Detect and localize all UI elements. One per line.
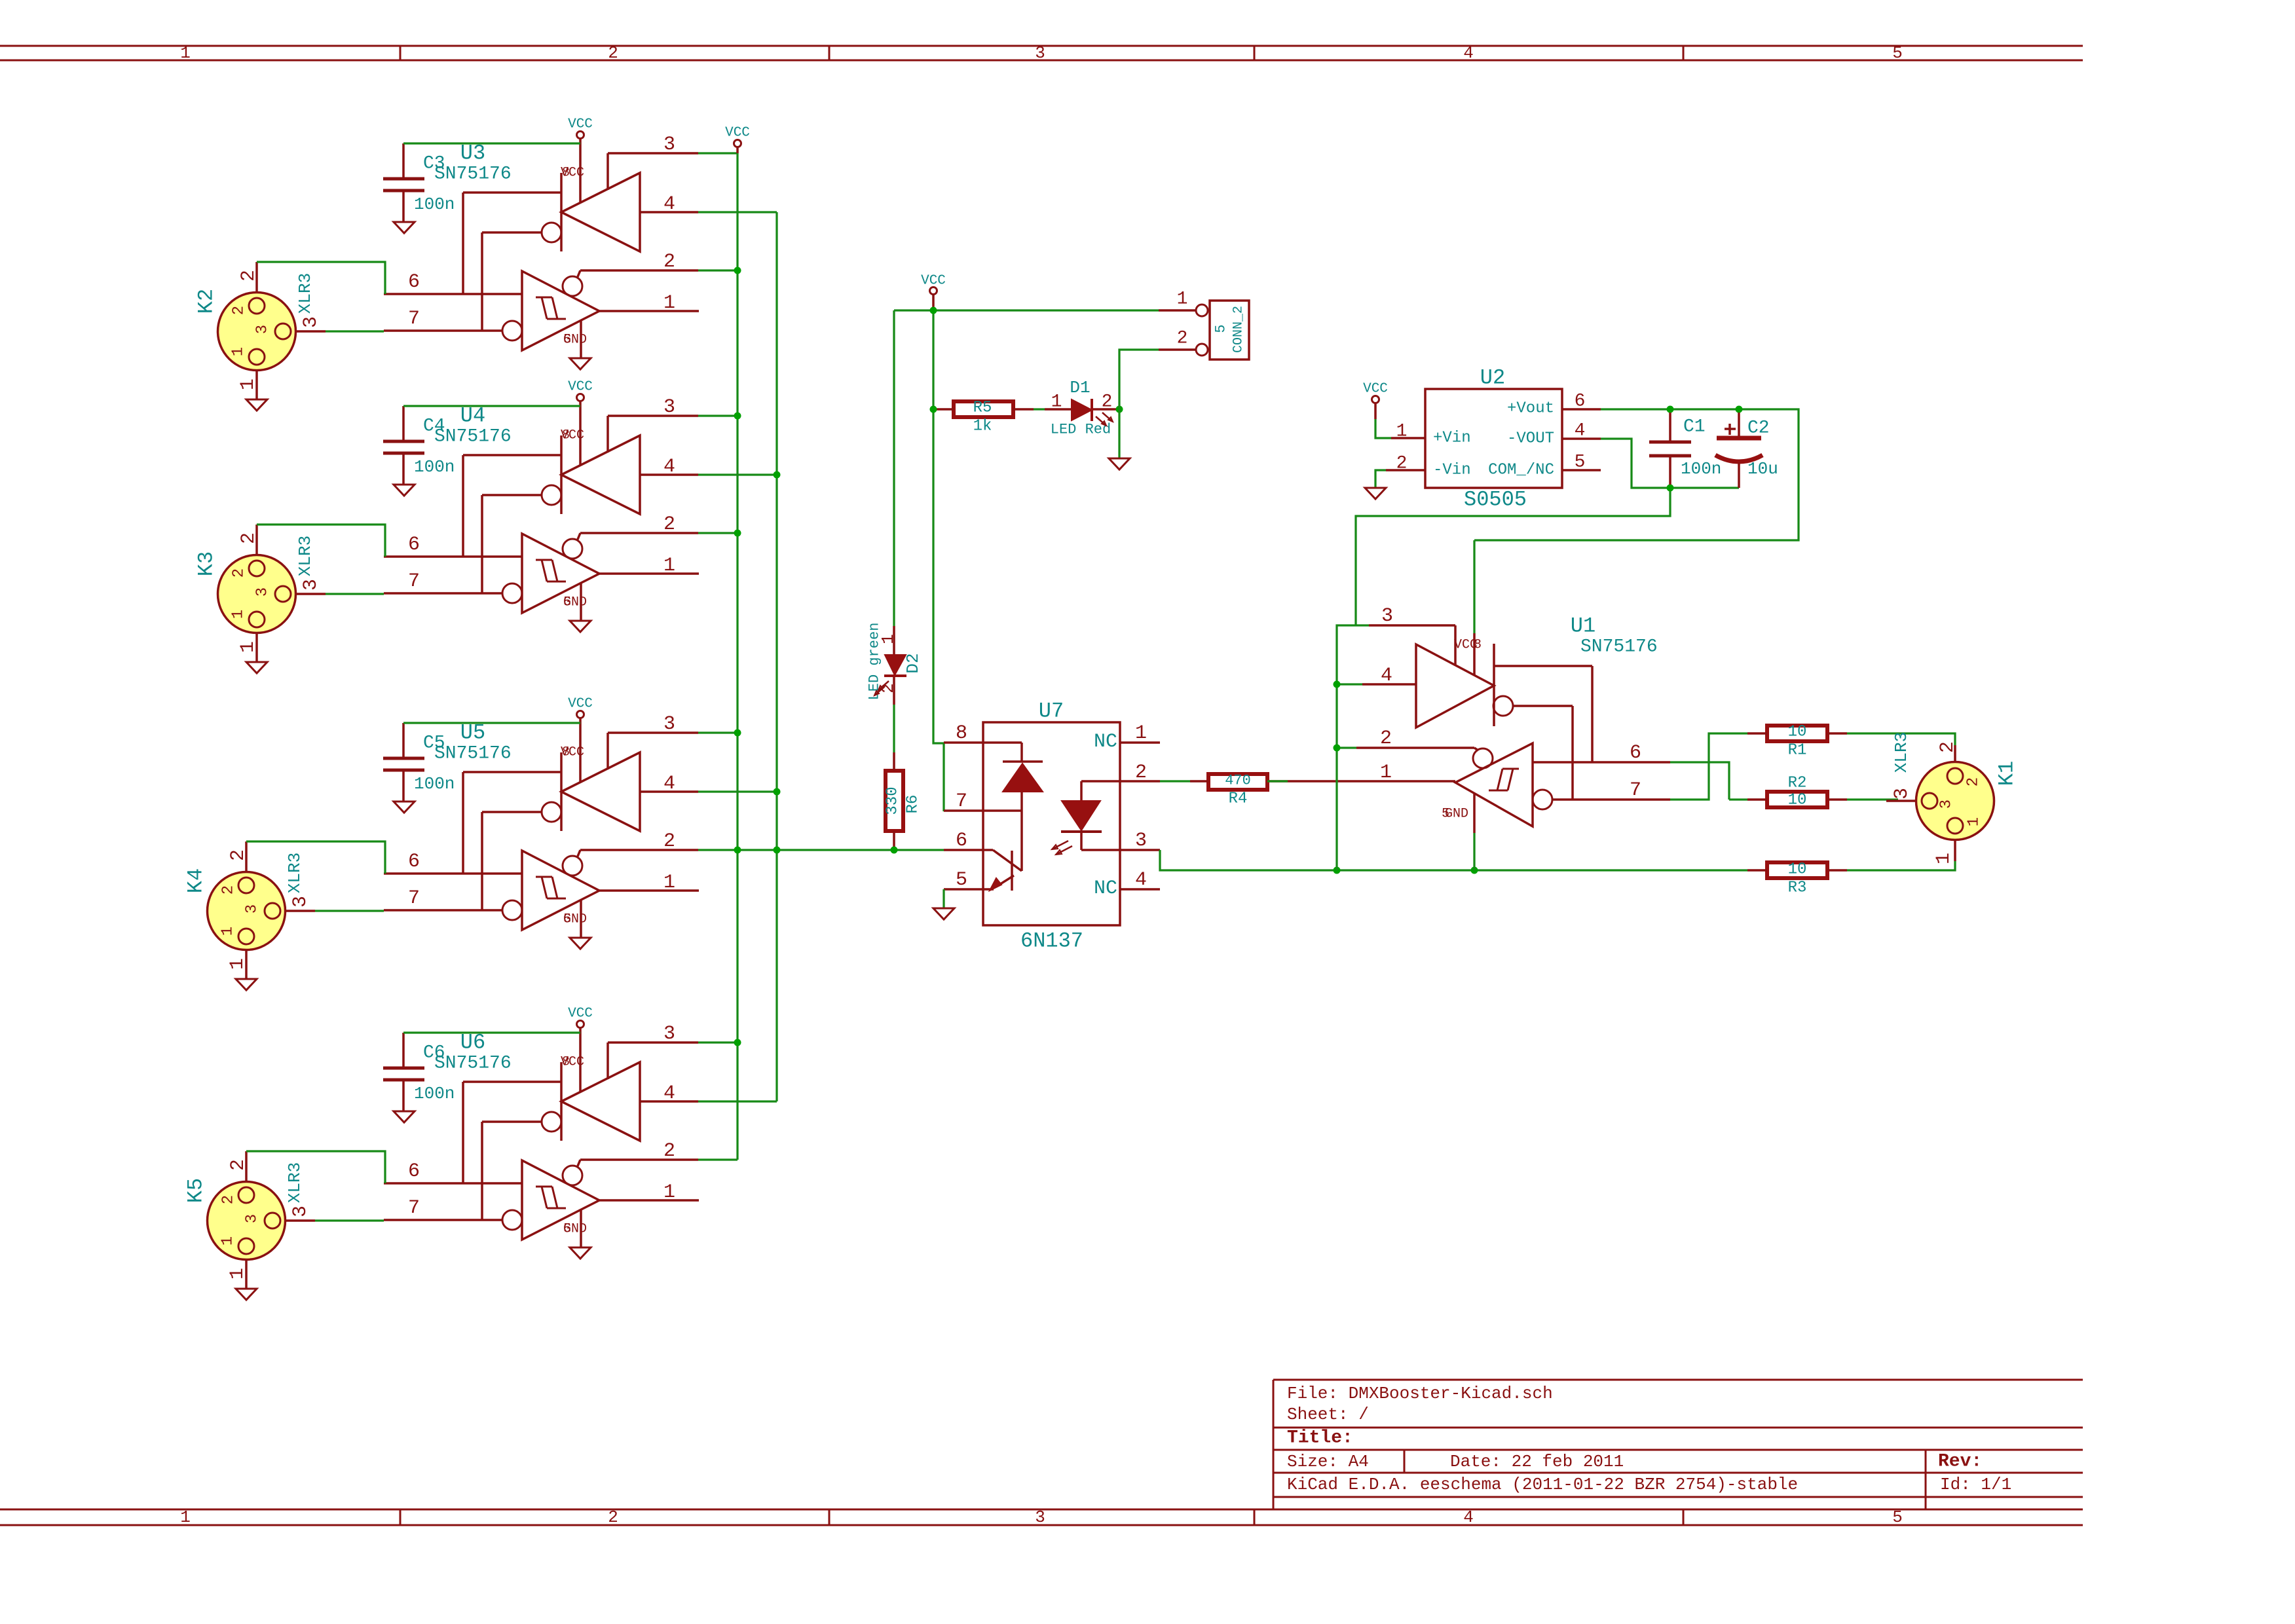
IC U1 pin 4 D (1362, 665, 1416, 687)
svg-text:XLR3: XLR3 (285, 1162, 305, 1203)
IC U6 GND pin (563, 1209, 587, 1247)
svg-text:2: 2 (663, 1140, 675, 1162)
svg-text:1: 1 (219, 927, 237, 936)
svg-text:6: 6 (408, 1160, 420, 1183)
wire U3 pin3 to VCC bus (698, 152, 737, 154)
svg-text:100n: 100n (414, 1084, 455, 1103)
svg-text:7: 7 (408, 308, 420, 330)
svg-text:K5: K5 (184, 1178, 208, 1203)
svg-text:5: 5 (563, 1222, 571, 1237)
junction caps (1667, 406, 1743, 492)
svg-text:U4: U4 (460, 404, 485, 428)
svg-text:3: 3 (244, 904, 261, 913)
svg-text:2: 2 (1965, 777, 1983, 786)
IC U1 driver triangle (1416, 638, 1592, 800)
svg-text:3: 3 (1891, 788, 1913, 800)
wire C3 to VCC pin of U3 (403, 142, 580, 144)
svg-text:1: 1 (219, 1236, 237, 1246)
IC U3 receiver triangle (502, 270, 599, 350)
wire U3 pin4 to data bus (698, 211, 777, 213)
IC U6 pin 4 D (640, 1082, 698, 1105)
title block text (1287, 1384, 2011, 1494)
resistor R5 1k (935, 399, 1034, 435)
wire K3 pin3 to U4 pin7 (326, 593, 384, 595)
wire K2 pin2 to U3 pin6 (257, 262, 385, 294)
svg-text:Sheet: /: Sheet: / (1287, 1405, 1369, 1424)
IC U4 pin 1 R output stub (599, 555, 699, 577)
svg-text:K4: K4 (184, 868, 208, 893)
svg-text:3: 3 (289, 1206, 312, 1217)
sheet frame bottom border (0, 1507, 2083, 1527)
U7 pin 6 Vo (944, 830, 993, 852)
svg-text:1: 1 (663, 555, 675, 577)
svg-text:2: 2 (220, 1195, 238, 1204)
wire U1 pin2 (1337, 747, 1356, 748)
svg-text:SN75176: SN75176 (434, 427, 512, 447)
IC U4 pin 7 B (384, 570, 502, 593)
svg-text:COM_/NC: COM_/NC (1488, 462, 1554, 479)
svg-text:6: 6 (408, 271, 420, 293)
U7 pin 2 anode out (1081, 762, 1160, 784)
svg-text:Rev:: Rev: (1938, 1452, 1982, 1472)
svg-text:1: 1 (1135, 722, 1147, 745)
wire U1 pin3 to isolated minus (1356, 488, 1670, 625)
svg-text:4: 4 (663, 193, 675, 215)
wire U5 pin4 to data bus (698, 790, 777, 792)
wire K5 pin2 to U6 pin6 (246, 1151, 385, 1183)
optocoupler U7 6N137 body (983, 699, 1120, 953)
svg-text:VCC: VCC (568, 380, 593, 395)
svg-text:1k: 1k (973, 418, 992, 435)
capacitor C5 100n (383, 723, 455, 802)
svg-text:VCC: VCC (568, 1006, 593, 1022)
wire U1 pin4 (1337, 683, 1362, 685)
svg-text:+Vin: +Vin (1433, 430, 1471, 447)
IC U1 pin 2 RE (1356, 728, 1474, 750)
svg-text:4: 4 (1575, 421, 1586, 441)
junction R5 left (930, 406, 937, 413)
svg-text:8: 8 (956, 722, 967, 745)
connector K1 pin 3 stem (1886, 788, 1916, 801)
svg-text:1: 1 (1177, 289, 1188, 310)
IC U6 driver triangle (463, 1055, 640, 1221)
connector K2 XLR3 (195, 273, 316, 371)
IC U5 pin 2 RE (580, 830, 698, 853)
wire U5 pin2 data row to optocoupler (698, 849, 944, 851)
IC U4 receiver triangle (502, 533, 599, 613)
svg-text:5: 5 (1213, 324, 1229, 333)
power VCC symbol above U4 (568, 380, 593, 466)
IC U1 pin 3 DE (1369, 605, 1455, 665)
wire U7 pin3 down to ground bus (1160, 850, 1747, 870)
wire U6 pin 2 to VCC bus (698, 1158, 737, 1160)
svg-text:330: 330 (884, 786, 902, 815)
svg-text:KiCad E.D.A. eeschema (2011-0: KiCad E.D.A. eeschema (2011-01-22 BZR 27… (1287, 1475, 1798, 1494)
wire C6 to VCC pin of U6 (403, 1031, 580, 1033)
svg-text:XLR3: XLR3 (295, 273, 315, 314)
connector K1 pin 1 stem (1933, 840, 1955, 864)
svg-text:100n: 100n (414, 194, 455, 214)
svg-text:Id: 1/1: Id: 1/1 (1940, 1475, 2011, 1494)
svg-text:8: 8 (562, 1055, 570, 1070)
svg-text:R4: R4 (1229, 790, 1248, 808)
resistor R6 330 (884, 752, 922, 850)
connector K2 pin 3 stem (295, 316, 326, 331)
svg-text:6N137: 6N137 (1020, 929, 1083, 953)
IC U4 pin 4 D (640, 456, 698, 478)
svg-text:100n: 100n (414, 457, 455, 477)
svg-text:VCC: VCC (1363, 382, 1388, 397)
IC U4 SN75176 labels (434, 404, 512, 447)
svg-text:2: 2 (238, 270, 260, 282)
U7 internal output photodiode (1052, 781, 1102, 855)
U7 pin 7 (944, 790, 1022, 813)
svg-text:R3: R3 (1788, 879, 1807, 897)
junction R6 bottom (891, 847, 898, 854)
U2 pin 1 (1391, 422, 1425, 442)
DC-DC converter U2 S0505 (1425, 366, 1562, 512)
IC U4 pin 2 RE (580, 513, 698, 536)
svg-text:1: 1 (180, 1507, 191, 1527)
svg-text:1: 1 (230, 610, 248, 619)
svg-text:+Vout: +Vout (1507, 400, 1554, 418)
svg-text:XLR3: XLR3 (295, 536, 315, 576)
svg-text:S0505: S0505 (1464, 488, 1527, 512)
wire -VOUT to caps (1601, 439, 1739, 488)
power VCC symbol on DE/RE bus (725, 126, 750, 154)
IC U5 pin 4 D (640, 773, 698, 795)
wire crossover pin7 to R1 (1670, 733, 1747, 800)
wire R5 to D1 (1034, 408, 1045, 410)
wire U1 pin3 wiring (1337, 625, 1369, 870)
svg-text:SN75176: SN75176 (1580, 637, 1658, 657)
junction isolated ground bus (1334, 867, 1478, 874)
svg-text:2: 2 (231, 306, 248, 315)
wire D1 to ground and CONN_2 pin 2 (1119, 350, 1159, 458)
wire U7 pin5 to ground (942, 889, 944, 908)
svg-text:U7: U7 (1039, 699, 1064, 724)
power VCC symbol above U3 (568, 117, 593, 204)
svg-text:10u: 10u (1747, 459, 1778, 479)
connector K3 pin 1 stem (237, 633, 259, 662)
connector K2 pin 1 stem (237, 370, 259, 399)
svg-text:3: 3 (254, 325, 272, 334)
svg-text:7: 7 (408, 570, 420, 593)
svg-text:4: 4 (1135, 869, 1147, 891)
svg-text:Date: 22 feb 2011: Date: 22 feb 2011 (1450, 1452, 1624, 1471)
wire R1 to K1 pin2 (1847, 733, 1955, 745)
svg-text:K1: K1 (1995, 761, 2019, 786)
svg-text:1: 1 (663, 872, 675, 894)
svg-text:4: 4 (1381, 665, 1392, 687)
svg-text:2: 2 (1102, 392, 1113, 413)
svg-text:7: 7 (956, 790, 967, 813)
wire VCC row to CONN_2 pin 1 (894, 309, 1159, 311)
svg-text:1: 1 (1051, 392, 1062, 413)
U2 pin 6 +Vout (1562, 392, 1601, 412)
ground below U4 (570, 621, 591, 632)
IC U6 receiver triangle (502, 1160, 599, 1240)
svg-text:7: 7 (1630, 779, 1641, 802)
svg-text:3: 3 (289, 896, 312, 908)
wire K3 pin2 to U4 pin6 (257, 525, 385, 557)
svg-text:2: 2 (1135, 762, 1147, 784)
svg-text:6: 6 (956, 830, 967, 852)
wire VCC down to LED D2 (893, 310, 895, 626)
IC U4 GND pin (563, 583, 587, 621)
wire U7 pin2 to R4 (1160, 780, 1190, 782)
IC U6 SN75176 labels (434, 1031, 512, 1074)
svg-text:VCC: VCC (568, 697, 593, 712)
svg-text:XLR3: XLR3 (1892, 732, 1911, 773)
connector K3 XLR3 (195, 536, 316, 633)
connector K4 XLR3 (184, 853, 305, 950)
svg-text:7: 7 (408, 887, 420, 910)
power VCC symbol above U6 (568, 1006, 593, 1093)
svg-text:8: 8 (562, 428, 570, 443)
U7 pin 1 NC (1094, 722, 1160, 753)
IC U6 pin 6 A (384, 1160, 522, 1183)
IC U5 pin 3 DE (608, 713, 698, 769)
IC U1 pin 1 R output (1288, 762, 1455, 784)
svg-text:8: 8 (562, 166, 570, 181)
svg-text:5: 5 (1892, 1507, 1903, 1527)
svg-text:5: 5 (1575, 452, 1586, 473)
svg-text:Title:: Title: (1287, 1428, 1353, 1449)
svg-text:D1: D1 (1070, 378, 1090, 397)
IC U5 SN75176 labels (434, 721, 512, 764)
svg-text:1: 1 (1396, 422, 1408, 442)
sheet frame top border (0, 43, 2083, 63)
capacitor C2 10u polarized (1715, 413, 1778, 488)
connector K4 pin 2 stem (227, 841, 250, 872)
connector K3 pin 2 stem (238, 525, 260, 555)
svg-text:C1: C1 (1683, 417, 1706, 437)
junction VCC row (930, 307, 937, 314)
svg-text:U1: U1 (1571, 614, 1595, 638)
svg-text:-Vin: -Vin (1433, 462, 1471, 479)
wire K4 pin2 to U5 pin6 (246, 841, 385, 874)
resistor R1 10 (1747, 724, 1847, 760)
svg-text:2: 2 (663, 513, 675, 536)
connector K5 XLR3 (184, 1162, 305, 1260)
IC U3 pin 7 B (384, 308, 502, 331)
svg-text:4: 4 (1463, 43, 1474, 63)
IC U5 receiver triangle (502, 850, 599, 930)
power VCC symbol center (921, 274, 946, 311)
svg-text:2: 2 (1380, 728, 1392, 750)
svg-text:5: 5 (563, 333, 571, 348)
connector K5 pin 1 stem (227, 1259, 249, 1289)
ground below C4 (394, 485, 415, 496)
U7 pin 4 NC (1094, 869, 1160, 900)
IC U1 GND pin (1442, 794, 1474, 833)
svg-text:1: 1 (237, 641, 259, 653)
svg-text:CONN_2: CONN_2 (1231, 306, 1246, 353)
svg-text:4: 4 (663, 456, 675, 478)
svg-text:5: 5 (1892, 43, 1903, 63)
svg-text:2: 2 (227, 1159, 250, 1171)
ground below K4 (236, 979, 257, 990)
ground below D1 (1109, 458, 1130, 470)
wire U2 pin2 to ground (1375, 470, 1386, 488)
junction dots on enable bus (734, 267, 741, 1046)
svg-text:File: DMXBooster-Kicad.sch: File: DMXBooster-Kicad.sch (1287, 1384, 1553, 1403)
IC U3 pin 6 A (384, 271, 522, 294)
svg-text:3: 3 (244, 1214, 261, 1223)
connector K5 pin 2 stem (227, 1151, 250, 1182)
wire U3 pin 2 to VCC bus (698, 269, 737, 271)
junction D1 cathode (1116, 406, 1123, 413)
svg-text:3: 3 (300, 316, 322, 328)
IC U5 pin 1 R output stub (599, 872, 699, 894)
svg-text:2: 2 (663, 251, 675, 273)
wire K2 pin3 to U3 pin7 (326, 330, 384, 332)
IC U4 pin 3 DE (608, 396, 698, 452)
svg-text:-VOUT: -VOUT (1507, 430, 1554, 448)
svg-text:3: 3 (663, 134, 675, 156)
wire +Vout rail (1474, 409, 1799, 540)
U7 pin 3 cathode out (1081, 830, 1160, 852)
U7 pin 5 GND (944, 869, 994, 891)
svg-text:2: 2 (1177, 329, 1188, 349)
svg-text:1: 1 (227, 1268, 249, 1280)
wire data bus vertical (775, 212, 777, 1101)
ground below U2 (1365, 488, 1386, 499)
capacitor C6 100n (383, 1033, 455, 1111)
wire U4 pin3 to VCC bus (698, 415, 737, 416)
svg-text:SN75176: SN75176 (434, 1054, 512, 1074)
wire VCC enable bus vertical (736, 153, 738, 1160)
svg-text:10: 10 (1788, 792, 1807, 809)
wire VCC to U2 pin1 (1375, 419, 1391, 438)
wire D2 to R6 (893, 705, 895, 752)
IC U6 pin 7 B (384, 1197, 502, 1220)
U7 internal input LED (1003, 743, 1043, 871)
IC U6 pin 1 R output stub (599, 1181, 699, 1204)
ground below C5 (394, 802, 415, 813)
svg-text:C2: C2 (1747, 418, 1770, 439)
IC U6 pin 3 DE (608, 1023, 698, 1079)
wire VCC down to R5 and U7 pin 8 (933, 310, 944, 811)
IC U3 pin 1 R output stub (599, 292, 699, 314)
capacitor C4 100n (383, 406, 455, 485)
connector K1 XLR3 (1892, 732, 2019, 840)
IC U4 driver triangle (463, 428, 640, 594)
svg-text:1: 1 (230, 347, 248, 356)
svg-text:R1: R1 (1788, 742, 1807, 760)
svg-text:3: 3 (300, 579, 322, 591)
junction U1 enable (1334, 681, 1341, 752)
U2 pin 5 COM (1562, 452, 1601, 473)
svg-text:1: 1 (180, 43, 191, 63)
svg-text:1: 1 (1966, 817, 1983, 826)
svg-text:NC: NC (1094, 877, 1117, 900)
connector K2 pin 2 stem (238, 262, 260, 293)
IC U3 GND pin (563, 320, 587, 358)
capacitor C3 100n (383, 143, 455, 222)
svg-text:2: 2 (1937, 741, 1959, 753)
svg-text:3: 3 (1035, 1507, 1045, 1527)
svg-text:U3: U3 (460, 141, 485, 166)
svg-text:6: 6 (408, 851, 420, 873)
svg-text:K3: K3 (195, 551, 219, 576)
connector K3 pin 3 stem (295, 579, 326, 594)
IC U5 driver triangle (463, 745, 640, 911)
svg-text:VCC: VCC (568, 117, 593, 132)
wire U1 GND to bus (1473, 833, 1475, 870)
wire C4 to VCC pin of U4 (403, 405, 580, 407)
svg-text:470: 470 (1225, 773, 1251, 789)
wire U6 pin3 to VCC bus (698, 1041, 737, 1043)
connector K4 pin 3 stem (285, 896, 315, 911)
ground below U6 (570, 1247, 591, 1259)
IC U3 driver triangle (463, 166, 640, 331)
IC U1 receiver triangle (1455, 743, 1552, 826)
IC U5 pin 6 A (384, 851, 522, 874)
svg-text:R2: R2 (1788, 775, 1807, 792)
svg-text:3: 3 (663, 396, 675, 418)
IC U1 SN75176 labels (1571, 614, 1658, 657)
svg-text:6: 6 (1630, 742, 1641, 764)
svg-text:VCC: VCC (725, 126, 750, 141)
wire U4 pin4 to data bus (698, 473, 777, 475)
svg-text:1: 1 (1380, 762, 1392, 784)
wire U4 pin 2 to VCC bus (698, 532, 737, 534)
svg-text:2: 2 (231, 568, 248, 578)
junction dots on data bus (774, 471, 781, 854)
connector K4 pin 1 stem (227, 950, 249, 979)
connector CONN_2 (1159, 289, 1249, 360)
svg-text:4: 4 (663, 1082, 675, 1105)
ground below U3 (570, 358, 591, 369)
svg-text:Size: A4: Size: A4 (1287, 1452, 1369, 1471)
svg-text:4: 4 (663, 773, 675, 795)
IC U5 pin 7 B (384, 887, 502, 910)
svg-text:2: 2 (1396, 454, 1408, 474)
ground below C6 (394, 1111, 415, 1122)
U7 internal phototransistor (990, 850, 1022, 891)
svg-text:2: 2 (220, 885, 238, 895)
svg-text:K2: K2 (195, 289, 219, 314)
svg-text:6: 6 (408, 534, 420, 556)
svg-text:2: 2 (663, 830, 675, 853)
svg-text:3: 3 (663, 1023, 675, 1045)
power VCC symbol at U2 (1363, 382, 1388, 420)
svg-text:100n: 100n (414, 774, 455, 794)
capacitor C1 100n (1649, 413, 1721, 485)
wire crossover pin6 to R2 (1729, 798, 1747, 800)
svg-text:6: 6 (1575, 392, 1586, 412)
LED D2 green (867, 623, 924, 705)
svg-text:D2: D2 (903, 653, 923, 673)
svg-text:3: 3 (1035, 43, 1045, 63)
svg-text:5: 5 (956, 869, 967, 891)
IC U1 pin 6 A (1533, 742, 1670, 764)
LED D1 red (1045, 378, 1119, 438)
svg-text:1: 1 (663, 292, 675, 314)
svg-text:U2: U2 (1480, 366, 1505, 390)
IC U1 pin 7 B (1552, 779, 1670, 802)
svg-text:2: 2 (608, 1507, 618, 1527)
svg-text:3: 3 (1135, 830, 1147, 852)
svg-text:1: 1 (237, 378, 259, 390)
svg-text:U6: U6 (460, 1031, 485, 1055)
svg-text:8: 8 (562, 745, 570, 760)
svg-text:NC: NC (1094, 731, 1117, 753)
svg-text:5: 5 (563, 912, 571, 927)
ground below K5 (236, 1289, 257, 1300)
